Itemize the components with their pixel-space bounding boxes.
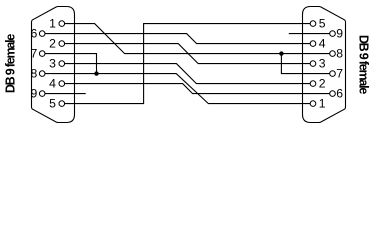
- junction dot J1 pins 7-8: [94, 71, 98, 75]
- pin J2-8: [330, 51, 336, 57]
- wire J1-5 to J2-5 (ground, riser): [65, 24, 311, 104]
- connector J1 body (left DB9 female): [32, 7, 75, 123]
- pin J2-4: [310, 41, 316, 47]
- svg-text:4: 4: [319, 37, 326, 51]
- svg-text:6: 6: [31, 27, 38, 41]
- wire J1-9 stub (not connected): [45, 93, 86, 95]
- pin J1-9: [39, 91, 45, 97]
- pin J2-5: [310, 21, 316, 27]
- junction dot J2 pins 7-8: [279, 51, 283, 55]
- svg-text:8: 8: [31, 67, 38, 81]
- svg-text:1: 1: [319, 97, 326, 111]
- wire J1-3 to J2-2: [65, 64, 311, 84]
- pin J2-7: [330, 71, 336, 77]
- svg-text:7: 7: [336, 67, 343, 81]
- svg-text:5: 5: [319, 17, 326, 31]
- pin J1-3: [59, 61, 65, 67]
- pin J2-2: [310, 81, 316, 87]
- wire J1-4 to J2-6: [65, 84, 330, 94]
- pin J1-7: [39, 51, 45, 57]
- svg-text:8: 8: [336, 47, 343, 61]
- pin J1-2: [59, 41, 65, 47]
- wire J2-9 stub (not connected): [289, 33, 330, 35]
- svg-text:DB 9 female: DB 9 female: [356, 35, 370, 95]
- pin J1-8: [39, 71, 45, 77]
- svg-text:3: 3: [319, 57, 326, 71]
- pin J1-5: [59, 101, 65, 107]
- svg-text:3: 3: [49, 57, 56, 71]
- wire J1-7 to J1-8 junction: [45, 54, 97, 74]
- pin J2-1: [310, 101, 316, 107]
- pin J2-6: [330, 91, 336, 97]
- wire J1-6 to J2-4: [45, 34, 310, 44]
- svg-text:7: 7: [31, 47, 38, 61]
- wire branch J2-7 from junction: [281, 54, 329, 74]
- wire J1-2 to J2-3: [65, 44, 311, 64]
- svg-text:1: 1: [49, 17, 56, 31]
- svg-text:DB 9 female: DB 9 female: [4, 34, 18, 94]
- svg-text:2: 2: [319, 77, 326, 91]
- connector J2 body (right DB9 female): [303, 7, 346, 123]
- wire J1-8 to J2-1: [45, 74, 310, 104]
- svg-text:9: 9: [336, 27, 343, 41]
- pin J1-6: [39, 31, 45, 37]
- svg-text:2: 2: [49, 37, 56, 51]
- svg-text:9: 9: [31, 87, 38, 101]
- pin J2-3: [310, 61, 316, 67]
- svg-text:6: 6: [336, 87, 343, 101]
- pin J1-4: [59, 81, 65, 87]
- pin J2-9: [330, 31, 336, 37]
- wire J1-1 to J2-7/8 net: [65, 24, 330, 54]
- svg-text:5: 5: [49, 97, 56, 111]
- pin J1-1: [59, 21, 65, 27]
- svg-text:4: 4: [49, 77, 56, 91]
